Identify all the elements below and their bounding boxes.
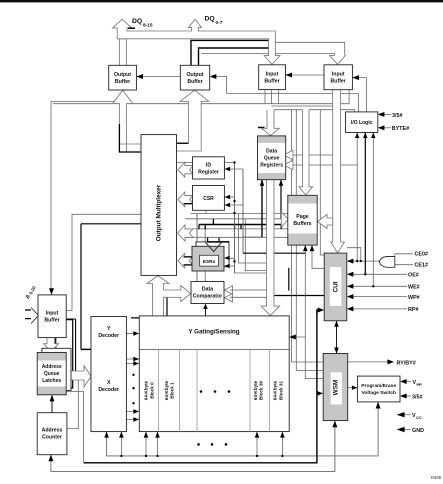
svg-text:Register: Register (198, 170, 219, 176)
arrow into Input Buffer A right (286, 73, 293, 78)
wire black stub at CSR arrow tail (184, 203, 193, 205)
wire BYTE# tail (384, 127, 391, 129)
wire DQ queue register right input 2 from I/O Logic bottom (286, 133, 358, 262)
wire black stub at ESRs arrow top tail (184, 256, 193, 258)
wire data bus MB bottom edge (271, 106, 354, 110)
wire A0-20 input stubs (25, 310, 31, 319)
bus Input Buffer B down to CUI top with hollow arrow (331, 90, 345, 253)
wire sense bus to array right edge (289, 336, 305, 338)
wire vertical x243 ID row down to black cross wire (242, 169, 244, 253)
arrow 3/5# into PEVS right (400, 394, 407, 399)
wire 3/5# IO tail (384, 113, 391, 115)
bus ID Register to OM hollow arrow (178, 162, 193, 177)
svg-text:WSM: WSM (332, 380, 339, 396)
wire GND tail (405, 429, 411, 431)
wire I/O Logic top to Input Buffer B right edge (351, 78, 366, 112)
top border bar (0, 0, 443, 2)
svg-text:WE#: WE# (408, 285, 420, 291)
wire right bundle V7 to CUI left upper (320, 110, 324, 255)
arrow into Data Comparator bottom (203, 304, 207, 310)
arrow BYTE# into I/O Logic right (378, 125, 385, 130)
svg-text:Buffer: Buffer (264, 79, 279, 85)
box Program/Erase Voltage Switch (357, 376, 400, 402)
svg-text:CSR: CSR (203, 196, 214, 202)
wire CSR right input 1 (224, 196, 234, 198)
wire top bus branch to Input Buffer B lower (202, 53, 335, 55)
wire black inner bend of Output Buffer B bus (177, 142, 189, 144)
wire black tick at x241 (240, 225, 242, 230)
arrows into Page Buffers bottom (303, 245, 308, 251)
bus CSR to OM hollow arrow (178, 192, 193, 207)
wire black tick at x205 (204, 225, 206, 230)
bus band OM to Page Buffers line 1 (191, 213, 289, 215)
wire black tick under DQ8-15 label (128, 27, 135, 29)
box Page Buffers (288, 195, 317, 245)
box Address Queue Latches shadow (42, 348, 71, 390)
wire black y253 line DQR area to V5 (243, 252, 305, 254)
arrow GND (397, 427, 405, 432)
junction dots (364, 273, 366, 275)
svg-text:CE0#: CE0# (415, 251, 429, 257)
dots inside array (200, 390, 203, 393)
wire Page Buffer bottom left down to WSM left (305, 245, 323, 378)
svg-text:DQ: DQ (205, 16, 215, 23)
svg-text:GND: GND (412, 428, 424, 434)
box Data Queue Registers (258, 136, 286, 180)
svg-text:RP#: RP# (408, 307, 419, 313)
box Address Counter (37, 413, 67, 455)
wire DC top risers from CSR/ESR stubs (197, 214, 205, 282)
svg-text:Program/Erase: Program/Erase (361, 383, 396, 389)
box addr Input Buffer (38, 295, 66, 338)
bus top DQ with pads DQ8-15 DQ0-7 and down arrow to Input Buffer A (113, 19, 281, 64)
svg-text:Buffer: Buffer (115, 79, 130, 85)
bus addr Input Buffer down to AQL (44, 338, 59, 353)
svg-text:Queue: Queue (264, 155, 280, 161)
svg-text:8-15: 8-15 (143, 22, 153, 28)
bus Output Buffer B bottom to Output Multiplexer right (177, 90, 209, 151)
svg-text:Output: Output (114, 72, 131, 78)
svg-text:64-Kbyte: 64-Kbyte (144, 380, 149, 400)
wire I/O Logic bottom right to WE junction (372, 133, 374, 287)
dots below array (197, 443, 200, 446)
svg-text:Registers: Registers (260, 162, 283, 168)
svg-text:Y: Y (107, 326, 111, 332)
svg-text:Queue: Queue (44, 371, 60, 377)
wire Page Buffer bottom right to CUI left (312, 245, 324, 268)
arrows into DQR bottom (260, 180, 265, 186)
wire I/O Logic top-left riser (354, 110, 356, 112)
wire W2: Output Buffer B right feedback across to I/O Logic top (213, 77, 359, 112)
svg-text:Data: Data (266, 148, 277, 154)
bus Page Buffers right hollow arrow from CUI bus (317, 215, 332, 229)
wire ESRs top tick from band (212, 219, 214, 225)
wire Address Counter right loop to decode bus (67, 380, 78, 429)
wire black tick at x235 (234, 225, 236, 230)
wire black pair Output Buffer B top to Input Buffer A bus 1 (191, 40, 271, 65)
bus AQL to X/Y decoders with hollow right arrow (66, 366, 91, 387)
box Y/X Decoder (91, 317, 126, 432)
bus hollow down arrow into Input Buffer B top (330, 55, 346, 64)
wire right bundle V2 to WSM left (296, 110, 323, 371)
wire block feeder risers from y456 bus (121, 432, 282, 456)
wire stub above ID Register to OM right (177, 162, 234, 164)
svg-text:64-Kbyte: 64-Kbyte (273, 380, 278, 400)
arrow VPP into PEVS right (400, 379, 407, 384)
arrows into array bottom (144, 432, 149, 438)
arrow into PEVS bottom (376, 402, 381, 409)
wire VPP tail (407, 381, 412, 383)
wire gray riser x238.5 to data bus (239, 214, 267, 264)
wire vertical x234.5 from ID stub row to ESR rows (234, 163, 236, 274)
wire Output Buffer feedback: OM left to vertical riser x72 to addr Input Buffer right (66, 214, 141, 310)
wire Input Buffer A bottom outputs x3 (265, 90, 279, 104)
wire ESRs top stubs from band line4 (208, 237, 219, 242)
arrow into WSM left from black bus (317, 391, 324, 396)
svg-text:I/O Logic: I/O Logic (351, 120, 373, 126)
bus MB branch down into Page Buffers top (299, 110, 313, 195)
wire WE# to CUI (348, 285, 407, 287)
svg-text:Output Multiplexer: Output Multiplexer (156, 184, 163, 241)
svg-text:OE#: OE# (408, 273, 419, 279)
line Y gating divider (139, 349, 289, 351)
svg-text:Latches: Latches (42, 378, 61, 384)
wire redraw DQR bottom left vertical over bus (261, 180, 263, 237)
wire black bottom bus y462.8 and riser to CUI (84, 310, 320, 463)
svg-text:PP: PP (417, 382, 423, 387)
arrow into Output Buffer A right (136, 74, 143, 79)
wire OE# to CUI (348, 273, 407, 275)
arrow into ID Register right (225, 167, 231, 171)
box ID Register (193, 157, 225, 179)
arrow into Input Buffer B right (352, 75, 359, 80)
arrow RY/BY# output (387, 359, 394, 364)
svg-text:Block 1: Block 1 (170, 382, 175, 399)
svg-text:64-Kbyte: 64-Kbyte (253, 380, 258, 400)
svg-text:Page: Page (296, 214, 309, 220)
svg-text:Block 30: Block 30 (259, 381, 264, 400)
wire X Decoder to blocks x4 (126, 359, 134, 420)
wire redraw DC riser over bus (196, 214, 198, 282)
box I/O Logic (346, 112, 378, 133)
wire AQL right edge down to bottom bus x83.6 (66, 392, 83, 463)
bus data vertical DQR bottom to Y gating top (261, 180, 280, 316)
wire black stub at ESRs arrow tail (184, 264, 193, 266)
wire black mid bus wire (199, 224, 281, 226)
wire ID Register right input (224, 168, 243, 170)
box Output Buffer A (109, 65, 137, 90)
svg-text:Decoder: Decoder (98, 387, 119, 393)
arrow into addr Input Buffer top (49, 288, 54, 295)
wire Output Buffer B to Output Buffer A (135, 76, 180, 78)
wire Address Counter bottom to WSM bottom y471 (51, 421, 335, 472)
wire top bus branch to Input Buffer B upper (275, 42, 345, 55)
wire Input Buffer B to Input Buffer A (285, 74, 325, 76)
arrow into AQL bottom (50, 395, 55, 402)
arrow Y decoder into Y gating (133, 331, 139, 336)
wire black pair Output Buffer B top to Input Buffer A bus 2 (199, 48, 271, 65)
svg-text:ESRs: ESRs (203, 259, 216, 265)
arrows into I/O Logic bottom (355, 133, 359, 139)
wire I/O Logic middle output down to OE junction (364, 133, 366, 275)
bus ESRs to OM hollow arrow (178, 253, 193, 268)
wire CE0# into gate (395, 254, 413, 257)
wire black edge of OM to Output Buffer A bus (119, 124, 141, 152)
arrows X decoder into blocks (133, 357, 139, 362)
arrows into decoder bottom (104, 432, 109, 438)
svg-text:Buffers: Buffers (293, 221, 311, 227)
svg-text:Input: Input (266, 72, 279, 78)
arrows into CUI right x5 (347, 259, 354, 264)
arrow V into ESRs top (206, 243, 222, 252)
wire black tick at PB arrow base (280, 224, 282, 229)
arrow 3/5# into I/O Logic right (378, 112, 385, 117)
wire DQR bottom right to data bus (280, 180, 282, 219)
wire black branch to WSM left (317, 392, 319, 394)
bus hollow arrow PB end of band (281, 212, 288, 227)
svg-text:0-7: 0-7 (216, 20, 223, 26)
arrow into WSM bottom (332, 421, 337, 428)
svg-text:3/5#: 3/5# (412, 394, 423, 400)
wire black tick at DC riser (198, 225, 200, 230)
svg-text:Address: Address (42, 364, 62, 370)
svg-text:X: X (107, 380, 111, 386)
wire AQL bottom from Address Counter top (51, 396, 53, 413)
bus MB branch down into Data Queue Registers top (262, 110, 280, 136)
bus band OM to Page Buffers line 3 (185, 228, 288, 230)
wire black vertical x81 from OM-left corner to X decoder divider (80, 224, 82, 350)
arrow into CUI left from black bus (318, 308, 325, 313)
wire black loop addr Input Buffer right to AQL right edge (66, 320, 73, 388)
box CSR (193, 186, 225, 211)
svg-text:D408: D408 (431, 475, 442, 480)
svg-text:BYTE#: BYTE# (392, 126, 409, 132)
svg-text:Block 0: Block 0 (149, 382, 154, 399)
svg-text:Output: Output (187, 72, 204, 78)
lines memory block dividers (159, 350, 270, 432)
wire DQR bottom loop to ESRs (261, 180, 263, 237)
wire X decoder divider extension (81, 348, 126, 350)
bus OM to Output Buffer A with hollow up arrow (113, 90, 141, 152)
svg-text:Voltage Switch: Voltage Switch (361, 390, 395, 396)
box ESRs shadow (196, 242, 229, 267)
arrows into CSR right (225, 195, 231, 199)
wire black horizontal from x81 to OM left edge (81, 223, 141, 225)
bus band OM to Page Buffers line 4 (185, 236, 288, 238)
box Output Buffer B (180, 65, 209, 90)
wire Y Decoder to Y gating (126, 333, 134, 335)
wire black addr Input Buffer bottom to AQL top (55, 338, 57, 353)
svg-text:Address: Address (42, 428, 63, 434)
svg-text:3/5#: 3/5# (392, 113, 403, 119)
box Input Buffer A (259, 65, 286, 90)
box Output Multiplexer (141, 135, 177, 276)
wire black tick up at ESR stub (212, 219, 214, 225)
svg-text:CE1#: CE1# (415, 262, 429, 268)
box Input Buffer B (324, 65, 352, 90)
svg-text:Counter: Counter (42, 435, 62, 441)
wire CUI to WSM vertical link (336, 321, 338, 354)
wire RY/BY# output from WSM (348, 361, 388, 363)
gate CE0/CE1 OR (379, 257, 395, 268)
wire WSM to Program/Erase Voltage Switch (348, 387, 358, 389)
svg-text:Block 31: Block 31 (278, 381, 283, 400)
svg-text:Buffer: Buffer (187, 79, 202, 85)
svg-text:CUI: CUI (332, 281, 339, 292)
wire 3/5# PEVS tail (407, 395, 412, 397)
wire PEVS supply from bottom bus y456 (107, 402, 379, 456)
svg-text:Buffer: Buffer (44, 318, 59, 324)
wire CE1# into gate (395, 264, 413, 266)
arrow into array right edge (289, 335, 296, 340)
wire redraw vertical x243 over bus (242, 169, 244, 253)
box CUI (324, 253, 347, 321)
symbol A0-20 chevron input (31, 308, 38, 324)
svg-text:64-Kbyte: 64-Kbyte (164, 380, 169, 400)
svg-text:Y Gating/Sensing: Y Gating/Sensing (188, 329, 239, 336)
arrow into Address Counter bottom (48, 455, 53, 462)
svg-text:WP#: WP# (408, 295, 420, 301)
wire black horizontal into CUI left y295.5 (274, 295, 324, 297)
arrow into WSM top from CUI link (334, 348, 339, 354)
arrow into PEVS left from WSM (352, 386, 358, 390)
bus hollow arrow OM end of band (178, 225, 193, 241)
wire data bus MB top edge (horizontal mid bus) (53, 90, 349, 104)
wire black elbow x288.8 (288, 268, 290, 291)
bus band OM to Page Buffers line 2 (185, 218, 288, 220)
wire WP# to CUI (348, 296, 407, 298)
wire black top edge of ESRs shadow (207, 241, 229, 243)
wire addr Input Buffer right to AQL bus riser x75.6 (66, 319, 75, 371)
svg-text:Buffer: Buffer (331, 79, 346, 85)
wire right bundle V1 to WSM left (292, 110, 324, 362)
arrow VCC (397, 412, 405, 417)
svg-text:ID: ID (206, 163, 211, 169)
box ESRs (192, 246, 224, 271)
wire address input: from DQ bus area down-left to address Input Buffer top (51, 102, 117, 290)
wire CSR bottom stub (205, 210, 207, 213)
box memory array with Y gating (139, 316, 289, 432)
box Data Comparator (191, 282, 224, 304)
wire CSR right input 2 (224, 204, 243, 206)
arrow into CUI bottom from WSM link (334, 321, 339, 327)
dots between X decoder and blocks (132, 374, 134, 376)
wire Data Comparator bottom stub from array (205, 308, 207, 317)
arrows into ESRs right (224, 256, 230, 260)
wire black tick above DQR arrow (258, 127, 265, 129)
wire DQ queue register right input 1 (286, 154, 333, 156)
wire elbow from CE line to CUI top right (347, 248, 361, 261)
wire RP# to CUI (348, 308, 407, 310)
svg-text:CC: CC (416, 415, 422, 420)
svg-text:Input: Input (46, 311, 59, 317)
box WSM (323, 354, 348, 421)
wire redraw vertical x234.5 over bus (234, 163, 236, 274)
arrow into Output Buffer B right (210, 74, 217, 79)
svg-text:Data: Data (202, 287, 213, 293)
svg-text:Comparator: Comparator (193, 294, 222, 300)
bus Output Buffer A top shaft to DQ bus (119, 39, 126, 66)
bus hollow arrow into DQR right 2 (284, 160, 294, 169)
wire black Y-gating top-left elbow (131, 295, 167, 318)
box Address Queue Latches (37, 353, 66, 395)
svg-text:Input: Input (332, 72, 345, 78)
svg-text:RY/BY#: RY/BY# (397, 360, 416, 366)
svg-text:DQ: DQ (132, 18, 142, 25)
svg-text:Decoder: Decoder (98, 333, 119, 339)
wire ESR right lines to x234.5 (229, 258, 235, 266)
wire gray riser x245.3 to data bus (245, 219, 266, 271)
wire CE gate output to CUI (348, 260, 380, 262)
bus Data Comparator right to data vertical bus (224, 286, 232, 295)
bus OM bottom from Y gating with DC branch (147, 276, 191, 316)
wire VCC tail (405, 414, 411, 416)
bus hollow arrow into DQR right 1 (284, 150, 294, 159)
